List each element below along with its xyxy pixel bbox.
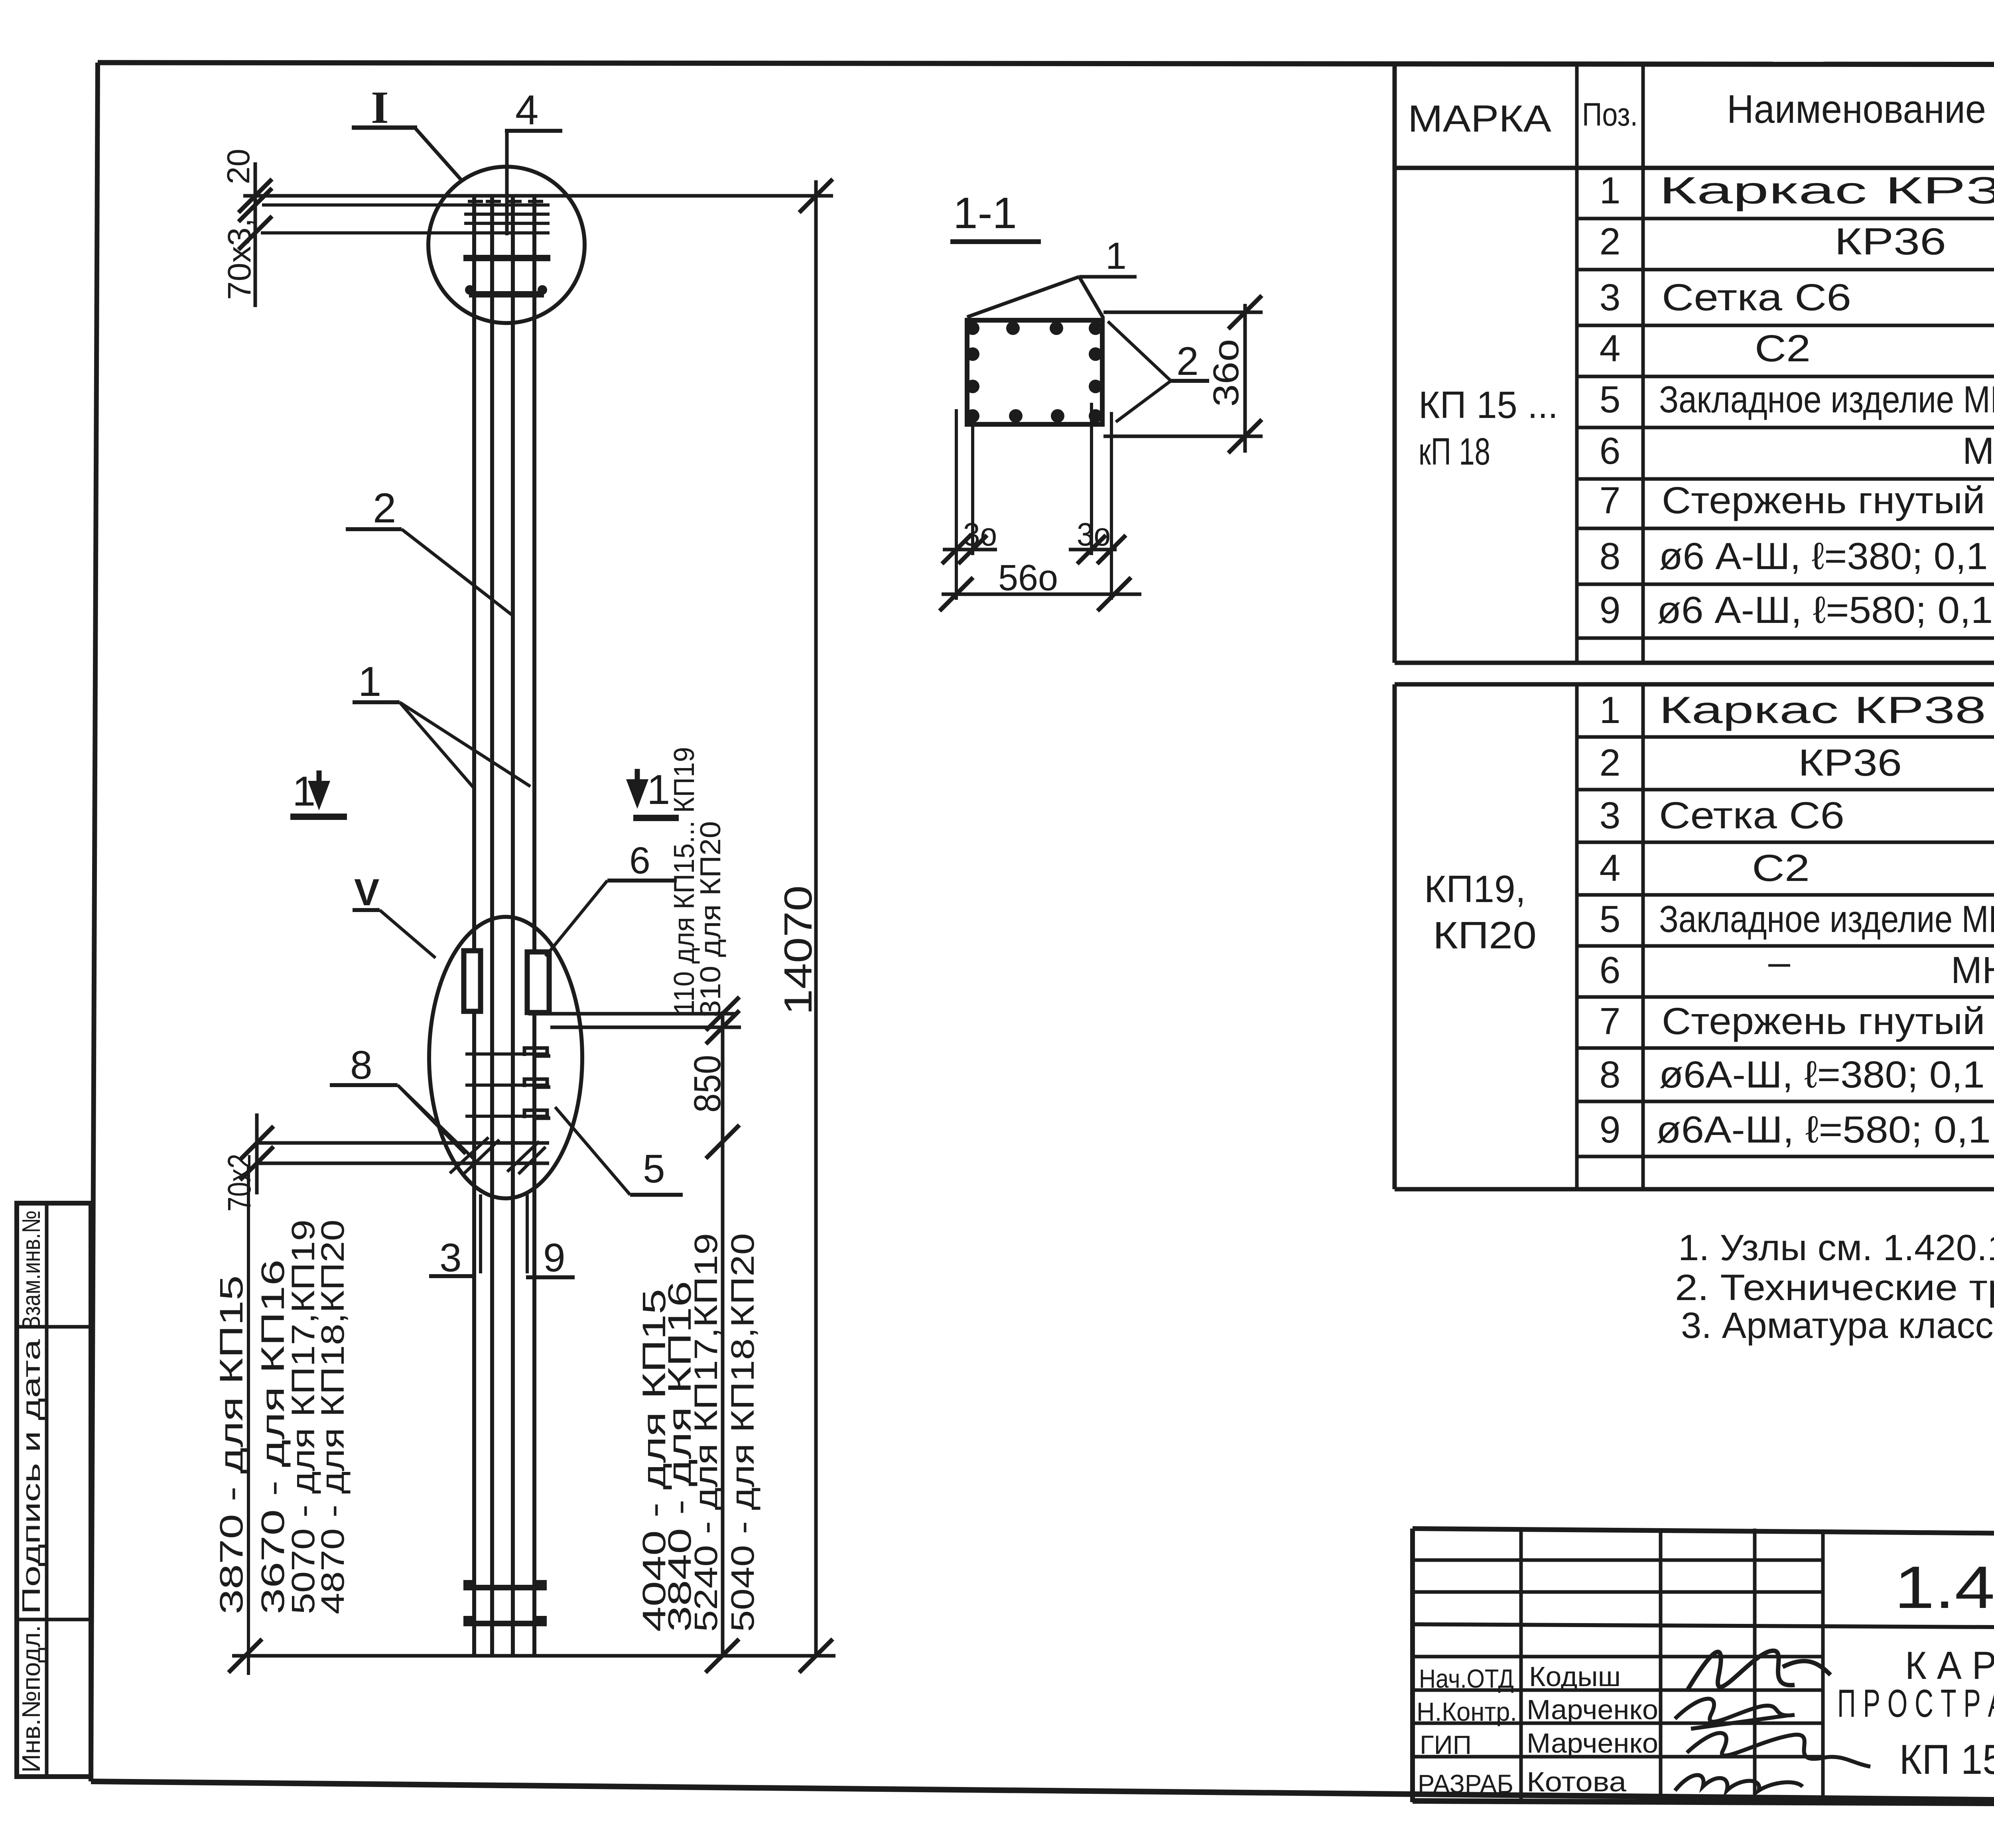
svg-text:Сетка С6: Сетка С6 [1662, 276, 1851, 319]
svg-text:Стержень гнутый -01: Стержень гнутый -01 [1662, 479, 1994, 522]
detail ellipse V around splice zone [429, 917, 582, 1198]
svg-text:3870 - для КП15: 3870 - для КП15 [213, 1275, 250, 1614]
notes below table [1675, 1227, 1994, 1346]
marka labels block 2 [1424, 868, 1537, 957]
svg-text:1-1: 1-1 [953, 189, 1017, 238]
dimension 14070 overall length [776, 179, 833, 1656]
marka labels block 1 [1419, 384, 1558, 473]
svg-text:К А Р К А С: К А Р К А С [1905, 1643, 1994, 1687]
svg-text:Котова: Котова [1527, 1766, 1626, 1797]
callout 5 with leader [555, 1107, 683, 1195]
svg-text:6: 6 [1600, 949, 1621, 991]
svg-text:ø6 А-Ш, ℓ=380; 0,1 кг: ø6 А-Ш, ℓ=380; 0,1 кг [1659, 535, 1994, 577]
dimension 20 and 70x3 at column top [221, 149, 272, 307]
svg-text:Марченко: Марченко [1527, 1694, 1658, 1725]
svg-text:2. Технические требования см.: 2. Технические требования см. 1.420.1-32… [1675, 1267, 1994, 1308]
svg-text:С2: С2 [1752, 847, 1810, 889]
svg-text:КП20: КП20 [1433, 914, 1537, 957]
bottom dimension line with ticks [229, 1166, 835, 1675]
length labels 3870/3670/5070/4870 [213, 1220, 351, 1614]
svg-text:6: 6 [1600, 430, 1621, 472]
section 1-1 title [950, 189, 1041, 242]
svg-text:КП 15... КП 20: КП 15... КП 20 [1899, 1736, 1994, 1783]
callout I with leader [352, 82, 463, 181]
lower anchorage stirrups with hatch [255, 1137, 549, 1176]
svg-text:36o: 36o [1206, 339, 1246, 407]
svg-text:П Р О С Т Р А Н С Т В Е Н Н Ы: П Р О С Т Р А Н С Т В Е Н Н Ы Й [1837, 1681, 1994, 1725]
svg-text:5240 - для КП17,КП19: 5240 - для КП17,КП19 [688, 1233, 724, 1632]
svg-text:Поз.: Поз. [1582, 97, 1638, 133]
svg-text:56o: 56o [998, 558, 1058, 598]
svg-text:ø6 А-Ш, ℓ=580; 0,1 кг: ø6 А-Ш, ℓ=580; 0,1 кг [1657, 589, 1994, 631]
svg-text:Закладное изделие МН7: Закладное изделие МН7 [1659, 898, 1994, 940]
table headers [1408, 68, 1994, 175]
svg-text:4: 4 [1600, 327, 1621, 370]
svg-text:70x3,: 70x3, [221, 218, 258, 300]
svg-text:Инв.№подл.: Инв.№подл. [17, 1625, 45, 1773]
svg-text:Наименование: Наименование [1727, 87, 1986, 132]
svg-text:9: 9 [1600, 589, 1621, 631]
section mark 1 (right) [626, 766, 679, 818]
splice zone stirrups [465, 1054, 549, 1116]
title KARKAS PROSTRANSTVENNYI KP15...KP20 [1837, 1643, 1994, 1783]
signature table names [1417, 1661, 1658, 1799]
svg-text:I: I [371, 82, 389, 133]
svg-text:1: 1 [1600, 689, 1621, 731]
section 1-1 outline with roof lines [967, 277, 1103, 424]
callout 2 with leaders [346, 485, 512, 615]
svg-text:КП 15 ...: КП 15 ... [1419, 384, 1558, 426]
svg-text:Н.Контр.: Н.Контр. [1417, 1697, 1517, 1726]
svg-text:2: 2 [1600, 221, 1621, 263]
svg-text:850: 850 [686, 1055, 729, 1113]
svg-text:5: 5 [643, 1147, 665, 1191]
svg-text:1: 1 [1105, 235, 1127, 277]
callout 8 with leaders [330, 1043, 475, 1160]
svg-text:Каркас КР38: Каркас КР38 [1659, 689, 1986, 731]
svg-text:ГИП: ГИП [1420, 1730, 1472, 1759]
svg-text:Стержень гнутый -01: Стержень гнутый -01 [1662, 1000, 1994, 1042]
bottom anchor cross bars [463, 1580, 547, 1626]
svg-text:1: 1 [647, 766, 670, 813]
svg-text:4: 4 [1600, 847, 1621, 889]
embedded plate left (item 6) [464, 951, 481, 1011]
svg-text:МН32: МН32 [1951, 949, 1994, 991]
svg-text:3: 3 [1600, 794, 1621, 837]
top stirrup lines and hooks [243, 196, 833, 295]
title block grid [1413, 1529, 1994, 1806]
table block 2 rows [1600, 689, 1994, 1151]
svg-text:3o: 3o [963, 516, 997, 553]
svg-text:8: 8 [350, 1043, 372, 1088]
svg-text:МАРКА: МАРКА [1408, 98, 1552, 140]
svg-text:Сетка С6: Сетка С6 [1659, 794, 1844, 837]
section callout 2 with leaders [1108, 321, 1209, 422]
detail circle I around column top [428, 167, 585, 323]
svg-text:7: 7 [1600, 1000, 1621, 1042]
column main bars (4 longitudinal) [474, 196, 534, 1654]
svg-text:ø6А-Ш, ℓ=380; 0,1 кг: ø6А-Ш, ℓ=380; 0,1 кг [1659, 1054, 1994, 1096]
svg-text:Марченко: Марченко [1527, 1728, 1658, 1759]
svg-text:Подпись и дата: Подпись и дата [17, 1339, 45, 1614]
svg-text:Закладное изделие МН7: Закладное изделие МН7 [1659, 378, 1994, 421]
svg-text:1.420.1-32. 2-2 - 06.: 1.420.1-32. 2-2 - 06. [1894, 1554, 1994, 1621]
svg-text:9: 9 [1600, 1109, 1621, 1151]
svg-text:6: 6 [629, 839, 650, 882]
section dimension 360 [1103, 296, 1263, 453]
svg-text:5: 5 [1600, 378, 1621, 421]
svg-text:3: 3 [1600, 276, 1621, 319]
svg-text:кП 18: кП 18 [1419, 430, 1490, 473]
svg-text:–: – [1768, 941, 1790, 983]
section callout 1 [1079, 235, 1137, 277]
svg-text:310 для КП20: 310 для КП20 [695, 821, 727, 1017]
svg-text:V: V [354, 871, 379, 914]
svg-text:3o: 3o [1077, 516, 1111, 553]
dimension 70x2 at anchorage [221, 1113, 274, 1212]
bar label 9 [526, 1235, 575, 1280]
svg-text:5040 - для КП18,КП20: 5040 - для КП18,КП20 [725, 1233, 761, 1632]
svg-text:5: 5 [1600, 898, 1621, 940]
svg-text:20: 20 [221, 149, 256, 184]
specification table grid block 2 [1395, 684, 1994, 1189]
callout 6 with leader [546, 839, 677, 956]
svg-text:РАЗРАБ: РАЗРАБ [1418, 1769, 1513, 1799]
svg-text:70x2: 70x2 [221, 1154, 258, 1212]
svg-text:8: 8 [1600, 535, 1621, 577]
section dimension 30 left [942, 409, 997, 600]
svg-text:9: 9 [543, 1235, 565, 1280]
rebar dots in section [966, 321, 1102, 423]
left stamp boxes (Vzam.inv, Podpis i data, Inv.No podl.) [17, 1203, 91, 1777]
svg-text:Нач.ОТД: Нач.ОТД [1419, 1664, 1514, 1693]
specification table grid block 1 [1395, 66, 1994, 663]
bar label 3 [429, 1235, 475, 1280]
svg-text:3. Арматура классов А-Ш, А-I: 3. Арматура классов А-Ш, А-I по ГОСТ 578… [1681, 1305, 1994, 1346]
svg-text:1. Узлы см. 1.420.1-32.2-2У: 1. Узлы см. 1.420.1-32.2-2У [1678, 1227, 1994, 1268]
svg-text:2: 2 [1176, 339, 1199, 384]
section mark 1 (left) [290, 768, 347, 817]
svg-text:КП19,: КП19, [1424, 868, 1526, 910]
embedded plate right (item 6) [527, 952, 549, 1013]
callout 4 with leader [505, 87, 562, 235]
svg-text:Каркас КР35: Каркас КР35 [1659, 169, 1994, 212]
svg-text:3: 3 [439, 1235, 462, 1280]
svg-text:4870 - для КП18,КП20: 4870 - для КП18,КП20 [315, 1220, 351, 1614]
svg-text:7: 7 [1600, 479, 1621, 522]
section dimension 30 right [1069, 403, 1126, 600]
svg-text:2: 2 [373, 485, 396, 532]
svg-text:КР36: КР36 [1834, 221, 1946, 263]
svg-text:Кодыш: Кодыш [1529, 1661, 1621, 1692]
section dimension 560 [940, 558, 1141, 611]
svg-text:4: 4 [515, 87, 538, 134]
svg-text:С2: С2 [1755, 327, 1811, 370]
svg-text:МН32: МН32 [1962, 430, 1994, 472]
svg-text:1: 1 [1600, 169, 1621, 212]
dimension lines 110/310/850 right of splice [528, 747, 741, 1656]
bent bar hooks (item 5) [524, 1048, 550, 1118]
svg-text:КР36: КР36 [1798, 742, 1902, 784]
svg-text:14070: 14070 [776, 885, 820, 1015]
svg-text:ø6А-Ш, ℓ=580; 0,1 кг: ø6А-Ш, ℓ=580; 0,1 кг [1656, 1109, 1994, 1151]
svg-text:8: 8 [1600, 1054, 1621, 1096]
table block 1 rows [1600, 169, 1994, 631]
svg-text:Взам.инв.№: Взам.инв.№ [17, 1210, 45, 1330]
length labels 4040/3840/5240/5040 [636, 1233, 761, 1632]
svg-text:1: 1 [358, 658, 381, 705]
signatures (cursive strokes) [1675, 1651, 1870, 1791]
callout 1 with leaders [353, 658, 530, 789]
svg-text:2: 2 [1600, 742, 1621, 784]
detail mark V with leader [353, 871, 435, 958]
